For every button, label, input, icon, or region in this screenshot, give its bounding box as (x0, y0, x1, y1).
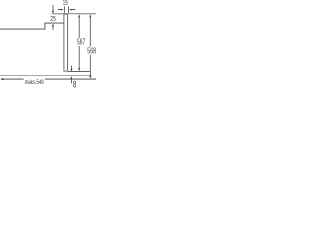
maks.548 left arrow (0, 78, 3, 80)
svg-text:8: 8 (73, 80, 77, 90)
svg-text:567: 567 (77, 37, 86, 46)
dimension 8 lower arrow (70, 76, 72, 79)
dimension 25 lower arrow (52, 24, 54, 27)
dimension 568 (89, 17, 91, 75)
dimension 25 upper arrow (52, 5, 54, 11)
svg-text:maks.548: maks.548 (25, 79, 44, 86)
line C: cabinet floor (0, 75, 90, 77)
svg-text:19: 19 (63, 0, 68, 7)
dimension maks.548 line (3, 78, 96, 80)
19 arrows (61, 9, 64, 11)
19 extension lines (64, 6, 68, 12)
svg-text:568: 568 (87, 47, 96, 56)
dimension 567 (78, 17, 80, 68)
dimension 8 upper arrow (70, 66, 72, 70)
dimension 19 line (58, 9, 75, 11)
line A: appliance bottom rear (68, 70, 90, 72)
niche top extension line (52, 13, 96, 15)
cabinet top line with step (0, 23, 64, 29)
svg-text:25: 25 (50, 14, 56, 23)
appliance niche side-section diagram (0, 0, 96, 96)
furniture panel (double vertical line) (64, 14, 68, 71)
